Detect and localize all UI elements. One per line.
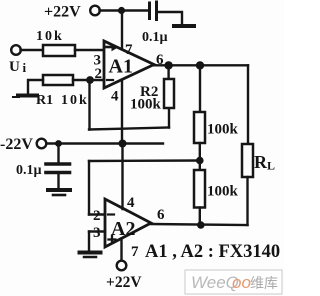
wire -22V rail [47,142,164,144]
wire divider to A2 pin 2 (horizontal) [89,159,200,162]
-22V supply terminal [0,136,46,153]
svg-text:+22V: +22V [44,4,81,21]
ground (C2) [48,190,70,195]
minus marker inside A2 (pin 2) [108,213,114,215]
wire 100k lower bottom lead [199,208,201,226]
wire R2 top lead [167,65,169,79]
svg-text:10k: 10k [61,93,89,108]
svg-text:0.1µ: 0.1µ [16,163,42,178]
wire feedback vertical (pin2 down) [88,80,90,130]
resistor R1 10k [36,75,89,108]
ground (A2 pin 3) [80,253,101,258]
svg-text:i: i [23,60,27,75]
op-amp U1 A1 [104,41,154,88]
wire 100k upper bottom lead [199,143,201,161]
svg-text:维库: 维库 [250,275,278,291]
svg-text:A1 , A2 : FX3140: A1 , A2 : FX3140 [145,242,280,262]
svg-text:R: R [254,152,268,172]
minus marker inside A1 (pin 2) [107,79,113,81]
junction dot divider midpoint [196,157,204,165]
resistor R2 100k [130,79,174,113]
resistor 100k (lower) [194,170,239,208]
wire A2 output row [151,224,248,225]
junction dot +22V rail / pin7 [118,7,125,14]
svg-text:10k: 10k [36,29,64,44]
svg-text:7: 7 [125,42,133,58]
+22V supply terminal (bottom) [106,261,142,291]
svg-text:3: 3 [93,225,101,241]
svg-text:A1: A1 [109,56,133,78]
pin 4 lead A2 [121,144,123,210]
junction dot rail / C2 [55,140,62,147]
junction dot output / 100k upper [196,61,204,69]
svg-text:4: 4 [111,89,119,105]
junction dot rail / pin4 [119,140,127,148]
junction dot A2 output row [197,221,205,229]
resistor 10k (input, top) [36,29,75,56]
svg-text:oo: oo [232,273,251,292]
wire 10k to pin 3 of A1 [75,49,104,51]
arrow marker inside A1 (+ input) [107,43,119,51]
wire feedback bottom horizontal [89,128,169,130]
input terminal Ui [9,45,27,75]
junction dot output / R2 [164,61,172,69]
wire R1 left to ground [28,80,43,93]
ground (top right) [174,24,194,28]
svg-text:6: 6 [157,207,165,223]
svg-text:100k: 100k [207,122,239,138]
svg-text:+22V: +22V [106,274,142,291]
svg-text:L: L [267,159,275,173]
+22V supply terminal (top) [44,4,100,21]
svg-text:U: U [9,59,20,75]
svg-text:0.1µ: 0.1µ [142,30,168,45]
svg-text:100k: 100k [207,184,239,200]
wire +22V rail [100,9,149,11]
svg-text:4: 4 [127,195,135,211]
wire divider to A2 pin 2 (vertical) [88,161,90,215]
svg-text:7: 7 [131,244,139,260]
wire right column (output to RL) [247,65,249,144]
resistor 100k (upper) [194,112,239,143]
resistor RL [242,144,275,177]
watermark WeeQoo [185,270,282,294]
wire R2 bottom lead [168,108,170,128]
svg-text:2: 2 [95,66,103,82]
op-amp U2 A2 [105,199,151,247]
svg-text:A2: A2 [111,218,135,240]
wire C1 to top-right ground [158,12,182,25]
pin 7 lead A2 [120,239,122,262]
pin 2 wire A2 [89,213,105,215]
pin 7 lead A1 [121,11,123,50]
ground (R1) [13,96,37,98]
wire pin3 to ground [88,232,90,253]
capacitor C1 0.1µ (top) [142,2,168,45]
wire 100k lower top lead [199,161,201,171]
svg-text:2: 2 [93,208,101,224]
wire R1 to pin 2 of A1 [73,79,104,81]
pin 3 wire A2 [89,230,105,232]
pin 4 lead A1 (down to -22V rail) [121,80,123,144]
wire input to 10k resistor [21,49,44,51]
wire RL bottom lead [246,177,248,225]
wire A1 output row [154,64,248,66]
plus marker inside A2 [109,236,116,243]
svg-text:100k: 100k [130,97,162,113]
svg-text:-22V: -22V [0,136,33,153]
junction node pin2 / feedback [86,76,94,84]
wire 100k upper top lead [199,65,201,112]
capacitor C2 0.1µ (bottom left) [16,144,70,189]
